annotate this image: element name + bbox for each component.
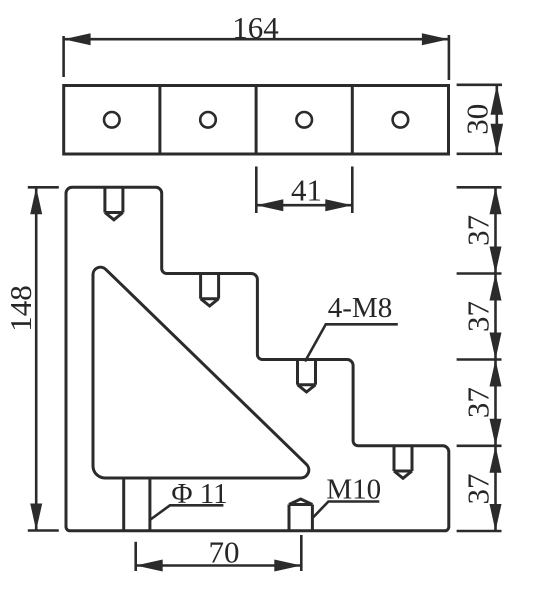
arrow 70 right — [274, 560, 301, 572]
arrow 41 left — [256, 199, 283, 211]
bar divider line 1 — [158, 86, 161, 155]
dim 37 dimension line 4 — [494, 446, 497, 531]
dim 70 extension line left — [134, 542, 137, 571]
dim 30 extension line top — [457, 84, 502, 87]
dim 41 extension line right — [351, 167, 354, 214]
svg-text:Φ 11: Φ 11 — [171, 478, 227, 510]
arrow 30 bottom — [491, 124, 504, 154]
arrow 37-2 top — [490, 274, 502, 301]
dim 41 extension line left — [255, 167, 258, 214]
dim 37 extension line 2 — [457, 272, 502, 275]
bar hole circle 1 — [104, 112, 120, 128]
svg-text:4-M8: 4-M8 — [328, 292, 392, 324]
arrow 37-4 bottom — [490, 504, 502, 531]
triangle cutout — [93, 267, 309, 478]
dim 37 dimension line 3 — [494, 360, 497, 446]
dim 70 extension line right — [300, 535, 303, 571]
dim 148 dimension line — [35, 187, 38, 530]
dim 164 dimension line — [64, 38, 449, 41]
arrow 37-3 bottom — [490, 419, 502, 446]
dim 30 extension line bottom — [457, 153, 502, 156]
bar hole circle 3 — [296, 112, 312, 128]
arrow 164 left — [64, 33, 91, 45]
dim 37 dimension line 1 — [494, 187, 497, 273]
svg-text:37: 37 — [461, 301, 496, 332]
dim 37 extension line 5 — [457, 530, 502, 533]
dim 164 extension line left — [62, 36, 65, 77]
tapped hole M8 #4 — [394, 446, 412, 479]
dim 37 extension line 1 — [457, 186, 502, 189]
bar hole circle 4 — [393, 112, 409, 128]
svg-text:37: 37 — [461, 474, 496, 505]
svg-text:41: 41 — [291, 173, 322, 208]
arrow 37-1 top — [490, 187, 502, 214]
arrow 70 left — [136, 560, 163, 572]
dim 37 dimension line 2 — [494, 274, 497, 360]
svg-text:M10: M10 — [326, 474, 381, 506]
svg-text:37: 37 — [461, 215, 496, 246]
bar divider line 3 — [351, 86, 354, 155]
arrow 41 right — [325, 199, 352, 211]
tapped hole M8 #3 — [298, 360, 316, 393]
arrow 148 top — [30, 187, 42, 214]
dim 148 extension tick top — [28, 186, 59, 189]
bar divider line 2 — [255, 86, 258, 155]
leader 4-M8 — [305, 324, 398, 361]
svg-text:70: 70 — [209, 535, 240, 570]
bar hole circle 2 — [200, 112, 216, 128]
arrow 164 right — [422, 33, 449, 45]
dim 148 extension tick bottom — [28, 529, 59, 532]
arrow 30 top — [491, 85, 504, 115]
leader phi-11 — [151, 505, 224, 519]
tapped hole M8 #1 — [105, 187, 123, 220]
leader M10 — [313, 502, 379, 518]
dim 41 dimension line — [256, 204, 352, 207]
svg-text:37: 37 — [461, 387, 496, 418]
stepped part outline — [66, 187, 449, 531]
arrow 37-3 top — [490, 360, 502, 387]
arrow 37-2 bottom — [490, 333, 502, 360]
tapped hole M8 #2 — [201, 274, 219, 307]
dim 37 extension line 3 — [457, 358, 502, 361]
tapped hole M10 bottom — [289, 499, 312, 531]
svg-text:30: 30 — [460, 104, 495, 135]
dim 164 extension line right — [448, 35, 451, 80]
arrow 37-1 bottom — [490, 247, 502, 274]
arrow 148 bottom — [30, 504, 42, 531]
arrow 37-4 top — [490, 446, 502, 473]
svg-text:148: 148 — [3, 285, 38, 332]
dim 70 dimension line — [136, 564, 302, 567]
svg-text:164: 164 — [232, 10, 279, 45]
dim 37 extension line 4 — [457, 444, 502, 447]
dim 30 dimension line — [495, 85, 498, 154]
phi-11 hole lines — [124, 478, 150, 531]
top view bar outline — [64, 86, 449, 155]
